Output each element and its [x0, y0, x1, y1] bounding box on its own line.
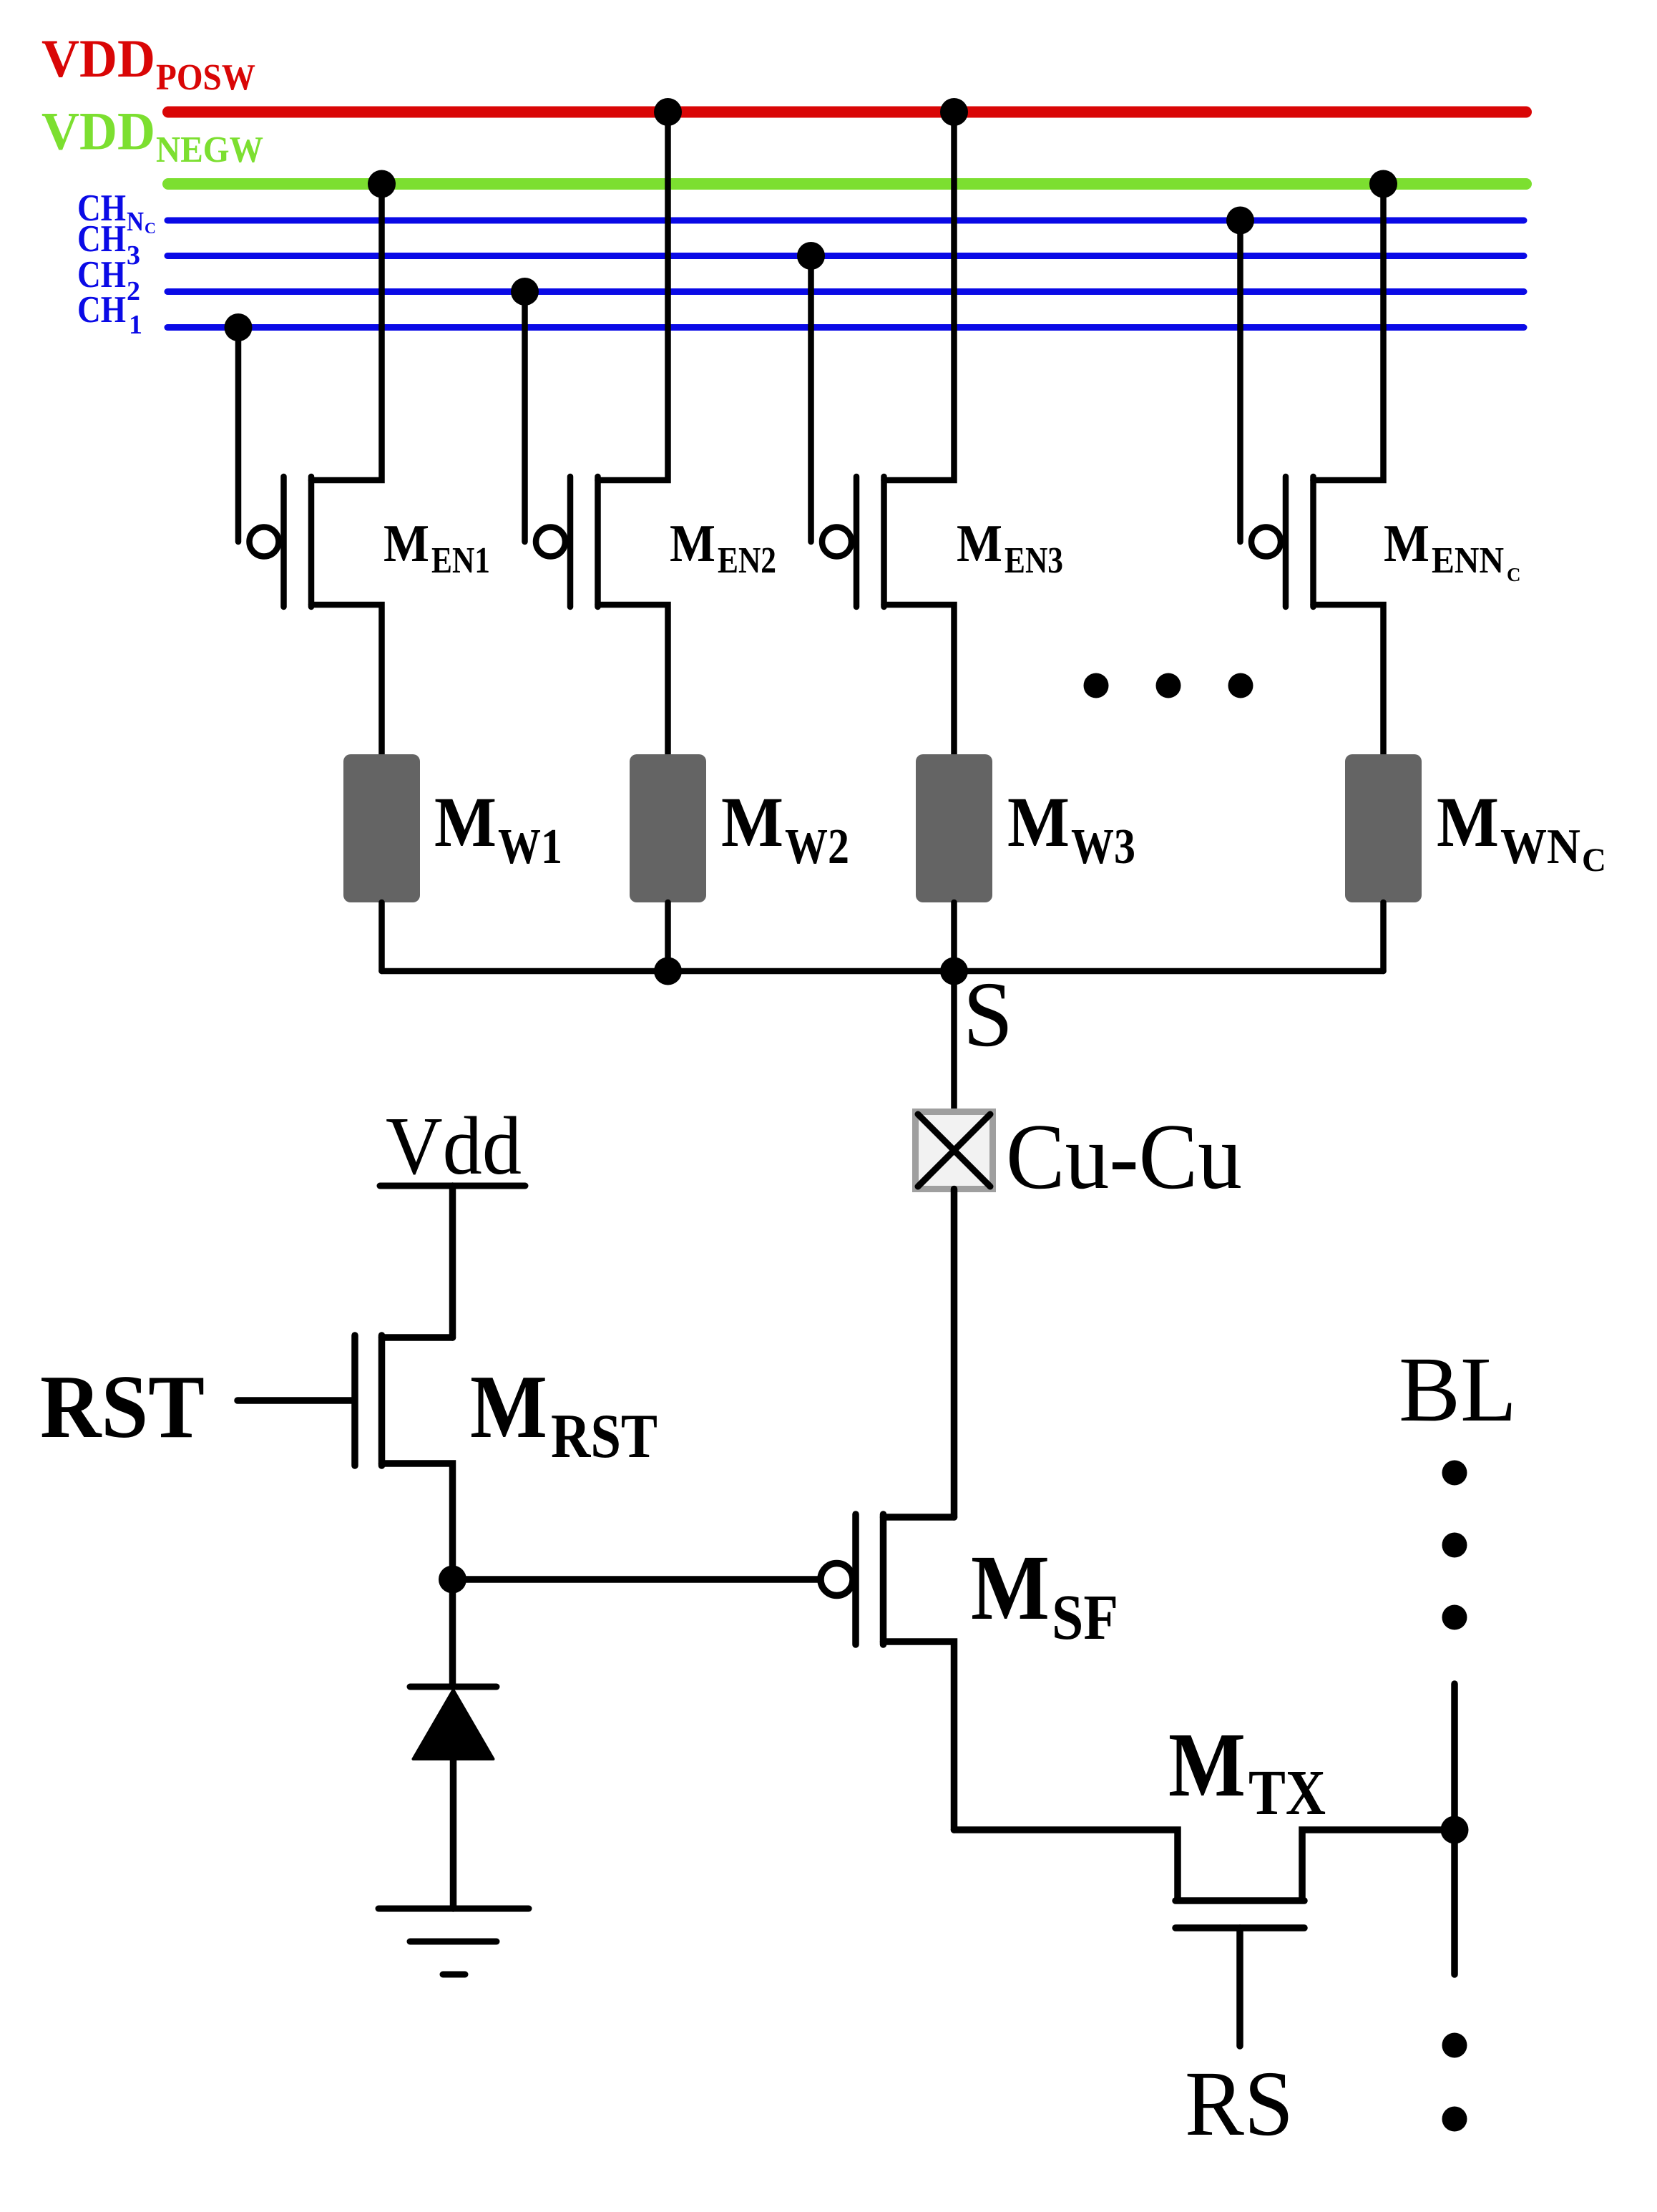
svg-text:RST: RST	[551, 1402, 658, 1471]
svg-text:M: M	[1168, 1714, 1246, 1816]
transistor M_SF (PMOS)	[821, 1514, 1118, 1830]
wire node S to Cu-Cu bond	[951, 971, 957, 1114]
svg-text:3: 3	[127, 240, 140, 271]
memristor M_W3	[916, 754, 1135, 902]
photodiode triangle	[414, 1690, 494, 1760]
M_TX gate bar	[1175, 1924, 1304, 1931]
memristor M_WNc	[1345, 754, 1606, 902]
photodiode D1	[410, 1687, 497, 1909]
svg-text:W3: W3	[1071, 819, 1135, 874]
M_ENNc gate bar	[1283, 477, 1289, 607]
svg-text:RST: RST	[40, 1358, 205, 1457]
junction dot M_RST source / photodiode / M_SF gate	[439, 1566, 466, 1594]
M_SF gate bubble	[821, 1564, 853, 1596]
power rail VDD_POSW	[168, 107, 1526, 118]
svg-text:M: M	[670, 515, 715, 573]
svg-text:1: 1	[129, 310, 142, 340]
M_RST gate bar	[351, 1335, 358, 1466]
wire Cu-Cu bond to M_SF source	[951, 1189, 958, 1518]
junction dot on VDD_POSW	[940, 98, 968, 126]
wire M_W1 to summing bus	[378, 902, 385, 971]
junction dot on CH_2	[511, 278, 539, 306]
M_RST channel bar	[378, 1335, 386, 1466]
M_EN2 gate bar	[567, 477, 574, 607]
junction dot on VDD_POSW	[654, 98, 682, 126]
svg-text:C: C	[145, 219, 156, 237]
svg-text:W2: W2	[785, 819, 849, 874]
svg-text:M: M	[383, 515, 429, 573]
M_EN2 source lead	[598, 112, 668, 480]
svg-text:M: M	[721, 782, 783, 862]
transistor M_EN1 (PMOS)	[225, 170, 491, 755]
svg-text:C: C	[1582, 842, 1606, 879]
svg-text:Cu-Cu: Cu-Cu	[1006, 1105, 1242, 1209]
M_SF drain lead	[884, 1642, 954, 1830]
wire junction to M_SF gate	[453, 1576, 823, 1583]
Cu-Cu hybrid bond	[916, 1105, 1243, 1209]
M_EN1 gate bubble	[250, 527, 279, 557]
svg-text:BL: BL	[1399, 1338, 1517, 1441]
wire junction to photodiode	[449, 1579, 456, 1687]
svg-text:N: N	[127, 207, 144, 237]
svg-text:CH: CH	[77, 289, 126, 331]
summing bus wire	[382, 968, 1384, 975]
junction dot on VDD_NEGW	[368, 170, 396, 198]
svg-text:RS: RS	[1185, 2052, 1294, 2155]
transistor M_RST (NMOS)	[40, 1335, 658, 1579]
transistor M_TX (NMOS, lateral)	[954, 1714, 1455, 2155]
channel line CH_Nc	[167, 218, 1524, 224]
memristor M_W2	[630, 754, 849, 902]
Vdd supply bar	[380, 1183, 525, 1189]
M_ENNc channel bar	[1310, 477, 1316, 607]
bit line BL	[1399, 1338, 1517, 2132]
wire M_W3 to summing bus	[951, 902, 957, 971]
svg-text:TX: TX	[1248, 1758, 1326, 1828]
wire RST to gate	[238, 1397, 352, 1404]
svg-text:WN: WN	[1500, 819, 1580, 874]
M_EN3 gate bubble	[822, 527, 851, 557]
M_EN2 drain lead	[598, 605, 668, 754]
M_TX channel bar	[1175, 1897, 1304, 1904]
M_RST drain lead	[382, 1334, 453, 1341]
M_EN3 gate bar	[854, 477, 860, 607]
svg-text:M: M	[1007, 782, 1070, 862]
svg-text:M: M	[1437, 782, 1499, 862]
M_EN1 gate bar	[280, 477, 287, 607]
channel line CH_2	[167, 288, 1524, 295]
svg-text:EN3: EN3	[1005, 540, 1063, 581]
svg-text:Vdd: Vdd	[386, 1101, 522, 1192]
svg-text:NEGW: NEGW	[156, 130, 263, 170]
svg-text:VDD: VDD	[41, 102, 155, 162]
junction dot bus/M_W2	[654, 958, 682, 985]
power rail VDD_NEGW	[168, 178, 1526, 190]
svg-text:ENN: ENN	[1432, 540, 1504, 581]
M_EN3 channel bar	[881, 477, 887, 607]
Vdd supply	[380, 1101, 525, 1338]
wire M_ENNc gate from CH_Nc	[1237, 220, 1243, 542]
junction dot on CH_1	[225, 313, 253, 341]
M_EN2 channel bar	[595, 477, 601, 607]
M_EN1 channel bar	[308, 477, 315, 607]
M_SF channel bar	[880, 1514, 887, 1645]
M_SF gate bar	[852, 1514, 859, 1645]
svg-text:S: S	[963, 963, 1013, 1066]
junction dot M_TX drain / BL	[1441, 1816, 1469, 1844]
transistor M_EN2 (PMOS)	[511, 98, 776, 754]
svg-text:POSW: POSW	[156, 57, 255, 98]
junction dot node S	[940, 958, 968, 985]
svg-text:M: M	[434, 782, 497, 862]
svg-text:EN1: EN1	[431, 540, 490, 581]
M_ENNc source lead	[1314, 184, 1384, 480]
memristor M_W1	[343, 754, 562, 902]
net label CH_3	[77, 218, 140, 271]
wire M_EN1 gate from CH_1	[235, 328, 242, 542]
wire M_SF drain to M_TX source	[954, 1830, 1178, 1898]
BL ellipsis dots lower	[1442, 2033, 1467, 2058]
M_RST source lead	[382, 1463, 453, 1579]
wire M_W2 to summing bus	[665, 902, 671, 971]
svg-text:SF: SF	[1052, 1582, 1118, 1653]
M_EN1 source lead	[311, 184, 382, 480]
ellipsis dots between columns	[1084, 673, 1253, 698]
M_EN3 drain lead	[884, 605, 954, 754]
wire M_WNc to summing bus	[1380, 902, 1387, 971]
M_EN3 source lead	[884, 112, 954, 480]
transistor M_ENNc (PMOS)	[1226, 170, 1521, 755]
BL wire	[1451, 1684, 1458, 1974]
svg-text:M: M	[957, 515, 1002, 573]
svg-text:M: M	[1384, 515, 1429, 573]
M_EN1 drain lead	[311, 605, 382, 754]
svg-text:C: C	[1507, 564, 1521, 585]
svg-text:W1: W1	[498, 819, 562, 874]
M_ENNc gate bubble	[1251, 527, 1281, 557]
M_EN2 gate bubble	[536, 527, 565, 557]
svg-text:M: M	[470, 1358, 547, 1457]
svg-text:VDD: VDD	[41, 29, 155, 89]
net label CH_Nc	[77, 187, 156, 237]
svg-text:2: 2	[127, 276, 140, 306]
photodiode cathode bar	[410, 1684, 497, 1690]
junction dot on CH_Nc	[1226, 207, 1254, 235]
wire M_EN2 gate from CH_2	[522, 292, 528, 542]
wire photodiode to ground	[450, 1759, 457, 1909]
net label CH_1	[77, 289, 142, 340]
M_ENNc drain lead	[1314, 605, 1384, 754]
M_TX gate stem	[1236, 1928, 1243, 2046]
svg-text:EN2: EN2	[718, 540, 776, 581]
junction dot on VDD_NEGW	[1369, 170, 1397, 198]
transistor M_EN3 (PMOS)	[797, 98, 1063, 754]
net label VDD_POSW	[41, 29, 255, 98]
net label VDD_NEGW	[41, 102, 263, 171]
wire M_EN3 gate from CH_3	[808, 256, 814, 542]
channel line CH_3	[167, 253, 1524, 259]
M_SF source lead	[884, 1514, 954, 1521]
net label CH_2	[77, 254, 140, 306]
BL ellipsis dots upper	[1442, 1461, 1467, 1486]
ground symbol	[378, 1909, 529, 1974]
channel line CH_1	[167, 324, 1524, 331]
M_TX drain side	[1302, 1830, 1455, 1898]
junction dot on CH_3	[797, 242, 825, 270]
wire Vdd to M_RST drain	[449, 1186, 456, 1338]
svg-text:M: M	[971, 1536, 1050, 1639]
